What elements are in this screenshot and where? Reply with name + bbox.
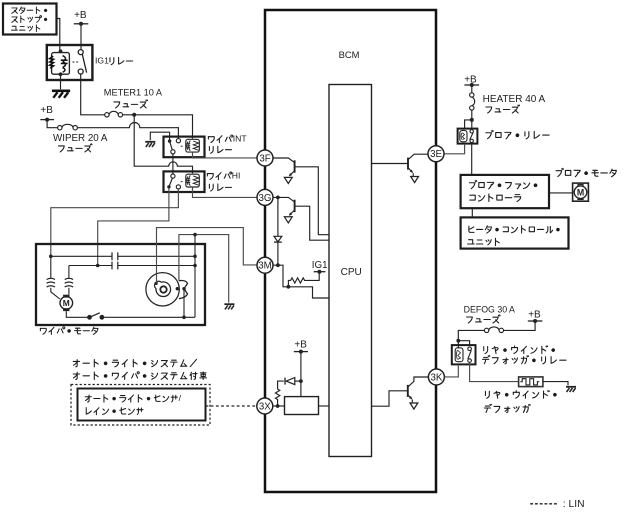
- label defogger relay line2: [483, 356, 567, 364]
- svg-text:CPU: CPU: [341, 267, 362, 278]
- relay IG1 coil: [50, 49, 70, 76]
- start-stop unit box: [3, 4, 57, 35]
- svg-text:M: M: [63, 298, 70, 308]
- wire Q1 base to CPU: [295, 167, 329, 235]
- connector 3F: [257, 150, 273, 166]
- label wiper HI relay: [207, 171, 240, 191]
- svg-text:METER1 10 A: METER1 10 A: [104, 88, 163, 98]
- wire connector 3M to IG1 sense network: [273, 265, 288, 287]
- wire motor to park switch: [66, 311, 87, 317]
- label auto wiper system: [73, 372, 206, 380]
- wire HEATER fuse to junction: [471, 110, 473, 120]
- cam lobe: [154, 281, 170, 296]
- relay defogger switch: [468, 347, 472, 362]
- wire motor internal bus 1: [51, 255, 195, 257]
- svg-text:+B: +B: [528, 309, 541, 320]
- svg-text:HEATER 40 A: HEATER 40 A: [483, 94, 546, 105]
- label blower motor: [556, 168, 616, 176]
- relay IG1 box: [47, 45, 93, 80]
- junction (METER1 output): [132, 113, 136, 117]
- wire WIPER fuse to wiper INT relay switch (hops over METER1 feed): [77, 122, 178, 138]
- terminal IG1: [312, 260, 328, 274]
- junction 3M node: [276, 263, 280, 267]
- label METER1 fuse: [104, 88, 163, 108]
- wire fan controller to heater control unit: [471, 208, 473, 217]
- relay wiper HI coil: [186, 174, 200, 187]
- fuse METER1 10A: [105, 111, 123, 117]
- connector 3G: [257, 189, 273, 205]
- relay blower box: [458, 129, 478, 144]
- relay wiper INT switch: [168, 139, 184, 154]
- junction blower feed: [470, 118, 474, 122]
- inductor choke 2: [65, 266, 73, 295]
- capacitor (noise suppressor 2): [112, 262, 118, 270]
- svg-text:+B: +B: [294, 339, 307, 350]
- svg-text:BCM: BCM: [339, 49, 360, 60]
- wire 3G junction to diode D1: [277, 197, 279, 236]
- svg-text:: LIN: : LIN: [563, 499, 585, 510]
- wire wiper HI switch common to wiper motor brush: [98, 189, 169, 266]
- wire blower relay coil to connector 3E: [444, 144, 464, 154]
- wire junction to blower relay coil: [465, 120, 472, 129]
- connector 3X: [257, 398, 273, 414]
- wire +B to WIPER fuse: [47, 120, 58, 128]
- wire junction to wiper INT relay coil: [134, 115, 192, 139]
- wire +B to input stage box: [300, 352, 302, 397]
- wire park switch to common return: [102, 316, 195, 318]
- wire wiper HI switch contact to wiper motor high brush: [51, 189, 179, 256]
- relay wiper HI switch: [167, 174, 184, 189]
- resistor R1 (IG1 sense): [288, 272, 319, 287]
- wire diode D1 to 3M node: [277, 242, 279, 265]
- wire junction to defogger relay switch: [458, 341, 469, 346]
- transistor Q2 (wiper HI output): [289, 200, 295, 216]
- wire fan controller to blower motor: [549, 192, 573, 194]
- junction bus2 mid: [96, 264, 100, 268]
- wire Q2 base to CPU: [295, 206, 329, 240]
- auto light/rain sensor dashed box: [71, 385, 210, 426]
- park switch: [87, 313, 104, 320]
- wire park return to cam blade: [183, 289, 185, 318]
- wire METER1 fuse to junction: [123, 114, 135, 116]
- BCM module box: [265, 10, 436, 492]
- wire common vertical (bus tie): [194, 235, 196, 318]
- input stage box (3X): [285, 397, 319, 415]
- diode D2 (3X clamp): [285, 378, 301, 385]
- wire connector 3X to input stage: [273, 405, 285, 407]
- label defogger relay line1: [484, 346, 555, 354]
- label CPU: [341, 267, 362, 278]
- label HEATER fuse: [483, 94, 546, 113]
- blower motor M1: [573, 183, 589, 201]
- wire CPU to transistor Q3 base: [372, 163, 409, 165]
- wire DEFOG fuse to defogger relay: [458, 330, 484, 340]
- junction bus1 right: [193, 254, 197, 258]
- wire defogger relay coil to connector 3K: [445, 365, 459, 377]
- wiper motor armature M: [60, 295, 73, 311]
- svg-text:3M: 3M: [258, 261, 271, 272]
- junction 3G-diode: [276, 196, 280, 200]
- cam contact blade: [176, 281, 188, 299]
- svg-text:3K: 3K: [430, 372, 442, 383]
- label blower relay: [486, 130, 549, 138]
- rear window defogger grid element: [519, 377, 543, 387]
- wire motor internal bus 2: [69, 265, 195, 267]
- relay blower switch: [470, 130, 474, 143]
- wire start-stop unit to IG1 relay coil: [57, 19, 60, 52]
- inductor choke 1: [47, 256, 60, 299]
- CPU box: [329, 85, 372, 457]
- label auto light system: [73, 359, 196, 367]
- fuse HEATER 40A: [470, 93, 475, 110]
- relay rear window defogger box: [452, 345, 476, 364]
- wire wiper INT coil to connector 3F: [193, 153, 258, 158]
- wire IG1 coil to ground: [60, 74, 62, 89]
- label wiper motor: [40, 327, 98, 335]
- label BCM: [339, 49, 360, 60]
- ground (wiper motor blade): [224, 304, 234, 309]
- cam plate circle: [146, 273, 179, 306]
- wire wiper INT switch to wiper HI switch: [172, 154, 174, 174]
- legend LIN dashed sample: [530, 503, 558, 505]
- ground (Q3 emitter): [411, 177, 419, 183]
- junction bus2 right: [193, 264, 197, 268]
- fuse DEFOG 30A: [484, 327, 503, 333]
- svg-text:3G: 3G: [259, 193, 272, 204]
- wire IG1 sense to CPU: [288, 287, 329, 298]
- ground (Q1 emitter): [284, 177, 292, 183]
- wire junction to blower relay switch: [471, 120, 473, 129]
- label IG1 relay: [95, 56, 133, 66]
- junction +B clamp: [299, 379, 303, 383]
- diode D1: [274, 236, 282, 242]
- power +B (DEFOG fuse): [528, 309, 543, 323]
- label WIPER fuse: [53, 133, 108, 152]
- connector 3K: [428, 369, 444, 385]
- transistor Q3 (blower relay driver): [408, 154, 428, 176]
- blower fan controller box: [461, 175, 549, 208]
- wire METER1 feed down to wiper HI relay coil (hops over INT switch output): [134, 115, 192, 174]
- wire cam contact to connector 3M: [157, 228, 257, 283]
- wire defogger relay switch to defogger grid: [470, 363, 519, 382]
- wire +B to IG1 relay switch: [80, 24, 82, 50]
- wire +B to HEATER fuse: [471, 85, 473, 93]
- relay IG1 switch: [73, 50, 87, 74]
- ground (Q2 emitter): [284, 217, 292, 223]
- wire wiper HI coil to connector 3G: [193, 188, 258, 198]
- svg-text:HI: HI: [232, 171, 241, 181]
- wire connector 3F to transistor Q1 collector: [273, 158, 295, 163]
- auto light/rain sensor box: [78, 389, 206, 421]
- ground (defogger): [566, 387, 576, 392]
- svg-text:IG1: IG1: [312, 260, 328, 271]
- svg-text:M: M: [577, 187, 584, 197]
- wiper motor box: [36, 244, 205, 325]
- relay wiper INT box: [164, 137, 205, 158]
- power +B (HEATER fuse): [464, 74, 479, 87]
- legend LIN text: [563, 499, 585, 510]
- relay defogger coil: [455, 348, 463, 362]
- transistor Q1 (wiper INT output): [289, 160, 295, 176]
- wire blower relay switch to fan controller: [471, 144, 473, 175]
- junction defogger feed: [456, 339, 460, 343]
- relay wiper INT coil: [186, 139, 200, 152]
- svg-text:INT: INT: [233, 134, 248, 144]
- wire connector 3G to transistor Q2 collector: [273, 197, 295, 202]
- junction 3X node: [276, 404, 280, 408]
- label rear window defogger line1: [485, 391, 556, 399]
- wire wiper INT switch common to ground: [150, 132, 169, 140]
- svg-text:3X: 3X: [259, 401, 271, 412]
- fuse WIPER 20A: [58, 124, 78, 130]
- svg-text:WIPER 20 A: WIPER 20 A: [53, 133, 108, 144]
- junction park return: [182, 316, 186, 320]
- connector 3E: [428, 146, 444, 162]
- wire cam blade to ground: [179, 235, 229, 303]
- label DEFOG fuse: [464, 305, 515, 323]
- ground (IG1 relay coil): [52, 91, 70, 98]
- ground (Q4 emitter): [410, 403, 418, 409]
- relay blower coil: [460, 130, 467, 141]
- resistor R2 (3X pull-up): [275, 381, 283, 406]
- junction blade-bus tie: [193, 233, 197, 237]
- svg-text:IG1: IG1: [95, 56, 109, 66]
- heater control unit box: [461, 217, 569, 248]
- wire defogger grid to ground: [543, 382, 568, 386]
- capacitor (noise suppressor 1): [112, 252, 118, 260]
- power +B (WIPER fuse): [40, 105, 54, 121]
- wire input stage to CPU: [319, 405, 330, 407]
- label wiper INT relay: [208, 134, 247, 154]
- wire LIN bus sensor to connector 3X (dashed): [206, 405, 256, 407]
- relay wiper HI box: [164, 171, 205, 192]
- ground (wiper INT relay): [145, 142, 155, 147]
- svg-text:+B: +B: [40, 105, 53, 116]
- power +B (3X pull-up): [294, 339, 308, 353]
- svg-text:DEFOG 30 A: DEFOG 30 A: [464, 305, 515, 315]
- transistor Q4 (defogger relay driver): [408, 377, 428, 403]
- wire +B to DEFOG fuse: [504, 321, 536, 330]
- junction IG1 sense: [287, 285, 291, 289]
- svg-text:3F: 3F: [259, 153, 270, 164]
- wire junction to defogger relay coil: [457, 341, 459, 349]
- wire CPU to transistor Q4 base: [372, 391, 408, 406]
- label rear window defogger line2: [484, 404, 530, 412]
- svg-text:3E: 3E: [430, 149, 442, 160]
- wire IG1 switch to METER1 fuse: [81, 74, 105, 115]
- connector 3M: [257, 257, 273, 273]
- svg-text:+B: +B: [74, 10, 87, 21]
- power +B (IG1 relay): [74, 10, 89, 26]
- junction bus1 left: [49, 254, 53, 258]
